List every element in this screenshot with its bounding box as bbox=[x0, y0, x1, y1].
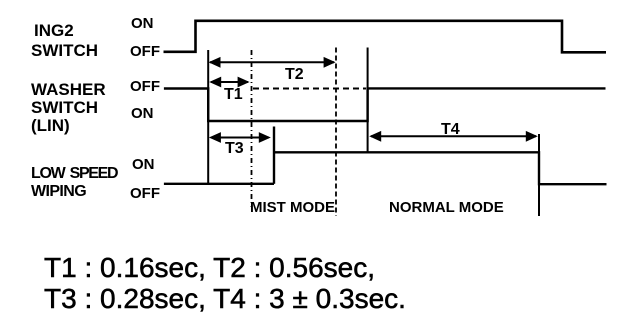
label: WIPING bbox=[31, 183, 86, 201]
label: MIST MODE bbox=[250, 199, 335, 216]
label: NORMAL MODE bbox=[389, 199, 504, 216]
wire: low speed wiping trace bbox=[164, 152, 607, 184]
dimension line: solid vertical at washer OFF edge (x=367.6) bbox=[367, 48, 369, 153]
label: OFF (low speed) bbox=[130, 185, 160, 202]
wire: ING2 switch trace bbox=[164, 21, 607, 53]
label: SWITCH (washer) bbox=[31, 98, 98, 118]
label: ON (ING2) bbox=[131, 15, 154, 32]
wire: washer switch OFF dashed reference level bbox=[253, 88, 366, 90]
wire: washer switch solid trace bbox=[164, 88, 606, 121]
label: SWITCH (ING2) bbox=[31, 41, 98, 61]
arrow: T2 span (double headed) bbox=[209, 57, 336, 68]
dimension line: dash-dot vertical at T1/T3 end (x=251.5) bbox=[251, 50, 253, 207]
label: T4 bbox=[441, 121, 460, 139]
label: WASHER bbox=[31, 80, 106, 100]
label: LOW SPEED bbox=[31, 165, 117, 183]
arrow: T4 span (double headed) bbox=[369, 131, 538, 142]
label: T2 bbox=[285, 66, 304, 84]
label: OFF (washer) bbox=[130, 78, 160, 95]
arrow: T3 span (double headed) bbox=[209, 132, 271, 143]
label: T3 bbox=[225, 140, 244, 158]
label: ING2 bbox=[34, 21, 74, 41]
label: OFF (ING2) bbox=[130, 43, 160, 60]
dimension line: vertical at low speed wiping ON edge (x=274) bbox=[273, 127, 275, 184]
dimension line: vertical at washer switch ON edge (x=208) bbox=[207, 50, 209, 184]
text: timing values line 1 bbox=[44, 252, 375, 284]
label: T1 bbox=[224, 86, 243, 104]
label: (LIN) bbox=[31, 116, 70, 136]
arrow: T1 span (double headed) bbox=[209, 77, 249, 88]
label: ON (low speed) bbox=[132, 156, 155, 173]
label: ON (washer) bbox=[131, 105, 154, 122]
dimension line: solid vertical at low speed wiping OFF edge (x=539) bbox=[538, 134, 540, 216]
dimension line: dashed vertical at T2 end / mist mode end (x=336) bbox=[335, 48, 337, 217]
text: timing values line 2 bbox=[44, 283, 406, 315]
